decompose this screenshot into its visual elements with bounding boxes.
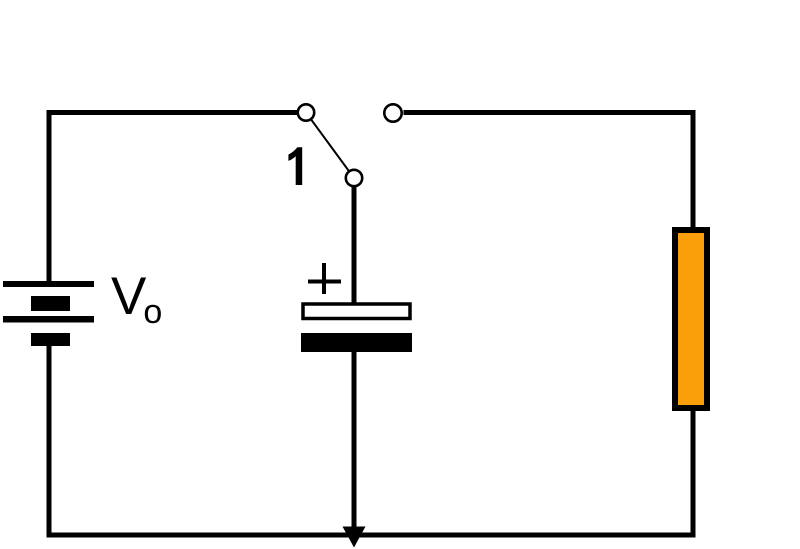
wire left lower segment (47, 346, 52, 538)
battery V0 plate 2 (short negative) (31, 296, 70, 311)
svg-text:Vo: Vo (111, 267, 162, 331)
switch arm from contact 1 (306, 113, 354, 179)
capacitor plus polarity sign (308, 263, 341, 294)
switch throw terminal right (384, 104, 401, 121)
wire top-left segment (47, 110, 298, 115)
wire middle lower segment (capacitor to bottom node) (352, 352, 357, 535)
wire bottom segment (47, 533, 696, 538)
switch contact terminal left (pole) (298, 104, 314, 120)
wire middle upper segment (switch to capacitor) (352, 186, 357, 303)
battery V0 plate 3 (long positive) (3, 316, 94, 323)
wire left upper segment (47, 110, 52, 281)
label 1 (switch position) (288, 147, 302, 185)
battery V0 plate 4 (short negative) (31, 333, 70, 346)
capacitor C top plate (outlined) (303, 304, 410, 319)
junction arrow at bottom node (343, 527, 366, 548)
wire top-right segment (404, 110, 696, 115)
battery V0 plate 1 (long positive) (3, 281, 94, 287)
switch throw terminal bottom (346, 170, 362, 186)
capacitor C bottom plate (solid) (301, 333, 412, 352)
wire right upper segment (691, 110, 696, 228)
wire right lower segment (691, 410, 696, 538)
resistor R (orange body) (675, 230, 707, 408)
